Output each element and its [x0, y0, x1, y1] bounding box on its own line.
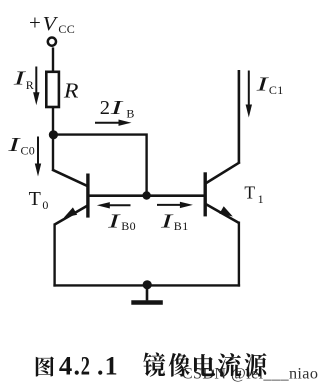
caption hanzi 电: [194, 354, 215, 376]
svg-text:B0: B0: [121, 219, 136, 233]
svg-text:4: 4: [59, 351, 72, 380]
svg-text:T: T: [244, 182, 255, 202]
svg-text:C1: C1: [269, 83, 284, 97]
svg-text:.: .: [74, 351, 81, 380]
current label I_C0: [7, 134, 35, 158]
svg-text:2: 2: [81, 351, 90, 380]
svg-text:B1: B1: [174, 219, 189, 233]
caption hanzi 源: [245, 353, 267, 377]
node A junction dot: [49, 130, 58, 139]
bottom rail wire: [53, 284, 240, 286]
svg-text:B: B: [126, 107, 134, 121]
current label I_C1: [255, 74, 284, 98]
caption hanzi 镜: [143, 352, 165, 376]
svg-text:.: .: [97, 351, 104, 380]
current label 2I_B: [100, 97, 135, 121]
svg-text:+: +: [29, 11, 41, 35]
svg-text:C0: C0: [21, 144, 35, 158]
current arrow I_C0: [35, 137, 41, 177]
current label I_B1: [159, 210, 188, 233]
svg-text:I: I: [107, 210, 122, 232]
current arrow I_B1: [157, 202, 193, 208]
current arrow I_B0: [97, 202, 131, 208]
ground: [131, 285, 163, 303]
base rail wire between T0 and T1: [89, 194, 205, 197]
Vcc terminal circle: [48, 38, 56, 46]
svg-text:I: I: [12, 68, 26, 90]
transistor T0 emitter with arrow: [54, 205, 88, 225]
wire: resistor bottom to node A: [52, 107, 54, 170]
transistor T1 base bar: [203, 172, 206, 216]
base node junction dot: [142, 191, 150, 199]
svg-text:I: I: [159, 210, 174, 232]
current label I_R: [12, 68, 34, 92]
wire: T0 collector diagonal: [52, 170, 89, 187]
wire: node A to base column (2I_B path): [52, 135, 147, 196]
wire: T0 emitter down left column: [53, 224, 55, 287]
current arrow 2I_B: [95, 120, 132, 126]
svg-text:I: I: [7, 134, 21, 156]
current arrow I_C1: [246, 71, 252, 118]
label T0: [29, 188, 49, 212]
svg-text:V: V: [43, 13, 59, 35]
wire: T1 collector diagonal: [205, 162, 240, 184]
supply label +Vcc: [29, 11, 75, 36]
svg-text:R: R: [63, 78, 79, 102]
resistor R body: [46, 72, 59, 107]
wire: terminal to resistor top: [52, 47, 54, 72]
svg-text:2: 2: [100, 97, 110, 119]
svg-text:0: 0: [42, 198, 48, 212]
current label I_B0: [107, 210, 136, 233]
caption hanzi 流: [218, 353, 241, 377]
svg-text:CC: CC: [58, 22, 75, 36]
svg-text:T: T: [29, 188, 41, 210]
svg-text:I: I: [255, 74, 269, 96]
wire: right column up to I_C1: [238, 70, 241, 164]
caption hanzi 像: [169, 353, 190, 377]
svg-text:R: R: [26, 78, 34, 92]
svg-text:CSDN @lei___niao: CSDN @lei___niao: [182, 365, 319, 383]
svg-text:I: I: [109, 97, 124, 119]
caption hanzi 图: [36, 357, 54, 377]
current arrow I_R: [33, 67, 39, 106]
label T1: [244, 182, 263, 206]
bottom rail junction dot: [143, 280, 152, 289]
svg-text:1: 1: [105, 351, 118, 380]
wire: T1 emitter down right column: [238, 222, 240, 287]
transistor T1 emitter with arrow: [205, 204, 239, 223]
svg-text:1: 1: [258, 192, 264, 206]
transistor T0 base bar: [86, 174, 89, 218]
